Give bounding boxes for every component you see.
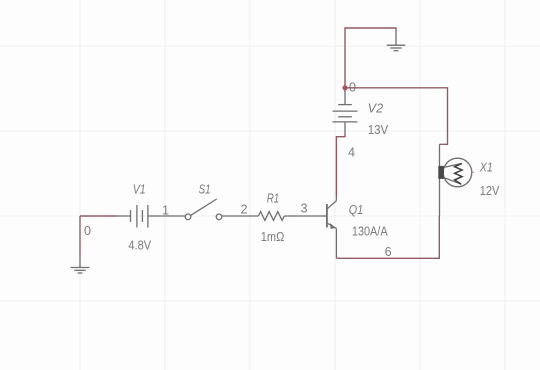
svg-text:6: 6	[385, 245, 392, 259]
svg-text:2: 2	[241, 203, 248, 217]
value 1m&#937;	[261, 230, 285, 244]
node 4 label	[348, 146, 355, 160]
svg-text:4.8V: 4.8V	[128, 239, 151, 253]
wire: node 0 to lamp top	[345, 88, 448, 145]
svg-text:1: 1	[162, 204, 169, 218]
svg-text:130A/A: 130A/A	[352, 224, 388, 238]
svg-text:1mΩ: 1mΩ	[261, 230, 285, 244]
wire: ground lead left	[79, 255, 81, 267]
node 1 label	[162, 204, 169, 218]
wire: emitter lead	[335, 234, 337, 258]
label Q1	[349, 203, 364, 217]
lamp X1	[438, 144, 474, 215]
node 0 (top) label	[349, 81, 356, 95]
wire: V1 to S1	[160, 215, 185, 217]
battery V1	[131, 205, 148, 228]
label V2	[368, 102, 384, 116]
node 6 label	[385, 245, 392, 259]
value 4.8V	[128, 239, 151, 253]
junction node 0	[342, 85, 347, 90]
svg-text:S1: S1	[199, 183, 211, 197]
battery V1 lead right	[148, 215, 160, 217]
value 130A/A	[352, 224, 388, 238]
svg-text:V1: V1	[133, 183, 146, 197]
wire: collector to V2	[336, 133, 345, 196]
node 3 label	[301, 202, 308, 216]
wire: R1 to Q1 base	[296, 215, 317, 217]
label R1	[267, 192, 280, 206]
battery V1 lead left	[116, 215, 131, 217]
resistor R1	[248, 212, 296, 221]
battery V2	[333, 105, 358, 122]
wire: S1 to R1	[222, 215, 248, 217]
wire: lamp bottom to emitter	[336, 216, 439, 259]
wire: node 0 up and to top ground	[345, 28, 396, 92]
wire: ground corner to V1	[80, 215, 116, 217]
svg-text:X1: X1	[479, 161, 493, 175]
node 0 (left) label	[84, 224, 91, 238]
svg-text:V2: V2	[368, 102, 384, 116]
svg-text:3: 3	[301, 202, 308, 216]
ground GND2 (top)	[387, 45, 406, 51]
switch S1	[185, 199, 222, 220]
svg-text:12V: 12V	[480, 184, 500, 198]
svg-text:4: 4	[348, 146, 355, 160]
battery V2 lead top	[344, 92, 346, 105]
svg-text:0: 0	[84, 224, 91, 238]
battery V2 lead bottom	[344, 122, 346, 133]
wire: left ground riser	[79, 216, 81, 255]
label V1	[133, 183, 146, 197]
ground lead top	[395, 31, 397, 45]
transistor Q1	[317, 196, 336, 234]
svg-text:R1: R1	[267, 192, 280, 206]
value 12V	[480, 184, 500, 198]
label X1	[479, 161, 493, 175]
svg-text:13V: 13V	[368, 123, 389, 137]
label S1	[199, 183, 211, 197]
value 13V	[368, 123, 389, 137]
ground GND1 (bottom left)	[71, 268, 90, 274]
svg-text:Q1: Q1	[349, 203, 364, 217]
node 2 label	[241, 203, 248, 217]
